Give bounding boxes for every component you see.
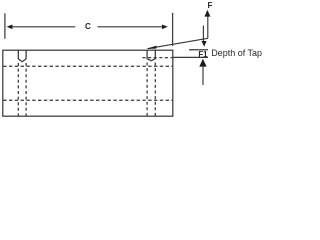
tapped hole left: hidden lines [17, 63, 19, 116]
F1 bottom extension line (tap depth) [173, 56, 208, 58]
hidden line lower [3, 99, 172, 101]
tapped hole right: hidden lines [146, 63, 148, 116]
C dimension arrow right [162, 25, 168, 30]
F1 top extension line (top face) [189, 49, 208, 51]
down arrowhead on F1 line [201, 41, 206, 47]
block outline [3, 50, 173, 116]
C dimension arrow left [7, 25, 13, 30]
leader line to right hole [148, 38, 208, 48]
thread depth hidden line (right hole) [143, 57, 173, 59]
tapped hole left: drilled profile [18, 50, 26, 62]
svg-text:F: F [208, 1, 213, 10]
leader arrowhead at hole [146, 46, 157, 49]
C dimension line left segment [8, 26, 75, 28]
svg-text:C: C [85, 22, 91, 31]
F leader up arrow (shaft) [207, 16, 209, 39]
C extension line left [4, 13, 6, 39]
svg-text:F1: F1 [198, 50, 208, 59]
hidden line upper [3, 65, 172, 67]
lower up arrowhead [199, 59, 206, 67]
down arrow to F1 line (shaft) [202, 26, 204, 43]
tapped hole right: drilled profile [147, 50, 155, 61]
C dimension line right segment [98, 26, 167, 28]
C extension line right [172, 13, 174, 46]
lower up arrow (shaft) [202, 64, 204, 85]
svg-text:Depth of Tap: Depth of Tap [211, 48, 262, 58]
F leader up arrowhead [204, 10, 210, 17]
